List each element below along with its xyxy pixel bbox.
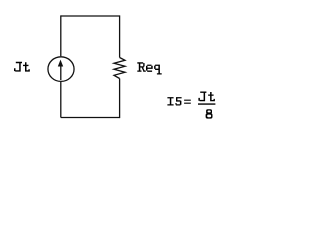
current source Jt (48, 57, 74, 82)
wire top (61, 15, 120, 17)
label Jt numerator (198, 92, 206, 102)
resistor Req (114, 58, 125, 79)
wire bottom (61, 117, 120, 119)
wire left upper (60, 15, 62, 56)
label 8 denominator (206, 109, 212, 113)
fraction bar (198, 103, 215, 105)
wire right lower (119, 79, 121, 119)
label Req (137, 62, 146, 72)
wire left lower (60, 82, 62, 118)
wire right upper (119, 15, 121, 57)
label Jt (14, 62, 22, 72)
label I5= (167, 97, 173, 105)
